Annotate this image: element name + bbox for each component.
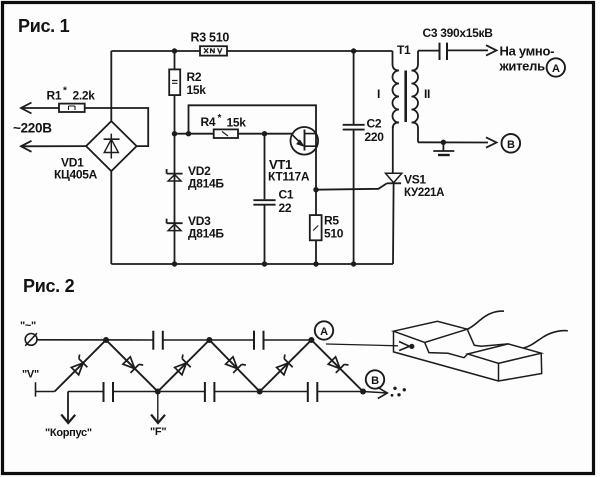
node junction ground <box>441 140 446 145</box>
node terminal A <box>547 58 565 76</box>
wire bridge top to rail <box>110 51 112 121</box>
resistor R5 <box>310 190 344 264</box>
node terminal V <box>22 369 39 397</box>
node junction valley2 <box>257 389 263 395</box>
diode D6 <box>328 354 349 375</box>
svg-text:22: 22 <box>279 201 292 215</box>
right block top face <box>468 344 542 363</box>
thyristor VS1 <box>386 126 445 264</box>
node output arrow fig2 B <box>378 387 388 398</box>
capacitor C3 <box>418 26 493 60</box>
wire R2 bottom to bottom rail through zeners <box>174 95 176 264</box>
svg-text:Рис. 1: Рис. 1 <box>18 16 70 36</box>
core <box>404 71 407 123</box>
node junction <box>351 261 356 266</box>
node junction <box>313 261 318 266</box>
right block right face <box>499 353 542 381</box>
node junction peak2 <box>206 337 212 343</box>
wire lead 1 <box>467 311 504 329</box>
svg-text:15k: 15k <box>187 83 207 97</box>
wire top rail left <box>111 50 200 52</box>
node terminal B <box>502 134 521 153</box>
resistor R3 <box>191 31 230 56</box>
svg-text:C1: C1 <box>279 188 294 202</box>
node pointer arrowhead <box>399 342 414 351</box>
svg-text:А: А <box>552 63 560 75</box>
svg-text:С3 390х15кВ: С3 390х15кВ <box>423 26 494 40</box>
node junction C2 top <box>351 48 356 53</box>
node junction peak1 <box>103 337 109 343</box>
svg-text:R1: R1 <box>47 89 62 103</box>
wire lead 2 <box>524 331 568 348</box>
wire R4 to emitter <box>238 133 293 135</box>
resistor R2 <box>169 51 206 97</box>
wire bottom rail <box>111 263 393 265</box>
left block top face <box>394 321 468 342</box>
wire zigzag diagonals <box>55 340 363 392</box>
node output B arrow <box>486 137 497 147</box>
capacitor C bot2 <box>205 382 215 402</box>
svg-text:R2: R2 <box>187 70 202 84</box>
svg-text:В: В <box>507 139 515 151</box>
svg-text:220: 220 <box>365 130 385 144</box>
capacitor C2 <box>343 51 385 264</box>
svg-text:15k: 15k <box>227 116 247 130</box>
zener diode VD3 <box>167 214 225 241</box>
wire pointer to multiplier block <box>326 344 398 346</box>
wire bridge bottom to bottom rail <box>110 171 112 264</box>
wire <box>85 108 149 146</box>
diode bridge VD1 <box>54 121 137 181</box>
svg-text:В: В <box>371 375 379 387</box>
capacitor C top2 <box>254 331 264 350</box>
svg-text:II: II <box>424 87 430 101</box>
svg-text:*: * <box>218 113 222 124</box>
node terminal A fig2 <box>315 321 333 339</box>
transformer T1 <box>377 43 430 142</box>
svg-text:2.2k: 2.2k <box>73 89 96 103</box>
diode D5 <box>274 354 295 375</box>
zener diode VD2 <box>167 164 225 191</box>
node junction R2 top <box>172 48 177 53</box>
svg-text:"Корпус": "Корпус" <box>45 427 92 439</box>
svg-text:"~": "~" <box>20 320 36 332</box>
node terminal ~ (phi) <box>20 320 37 346</box>
node junction <box>262 261 267 266</box>
secondary winding II <box>412 51 419 143</box>
node junction gate/R5 <box>313 187 318 192</box>
svg-text:VS1: VS1 <box>404 173 426 187</box>
capacitor C bot1 <box>104 382 114 402</box>
wire <box>21 145 86 147</box>
resistor R1 <box>47 86 96 113</box>
wire multiplier bottom rail <box>36 391 364 393</box>
wire gate to thyristor <box>316 183 387 189</box>
node junction loop left <box>186 131 191 136</box>
svg-text:510: 510 <box>324 227 344 241</box>
capacitor C top1 <box>153 331 163 350</box>
svg-text:C2: C2 <box>367 117 382 131</box>
node junction peak3 <box>308 337 314 343</box>
node junction R4 tap <box>172 131 177 136</box>
svg-text:"F": "F" <box>150 426 166 438</box>
transistor VT1 (unijunction) <box>268 127 318 184</box>
decorative dots <box>391 387 406 397</box>
node junction valley3 <box>360 389 366 395</box>
block left and bottom edges <box>394 331 499 381</box>
primary winding I <box>393 51 400 128</box>
wire secondary bottom to B <box>418 141 488 143</box>
svg-text:T1: T1 <box>397 43 411 57</box>
node junction C1 top <box>262 131 267 136</box>
resistor R4 <box>201 113 247 138</box>
diode D2 <box>122 354 143 375</box>
wire multiplier top rail <box>37 339 311 341</box>
node ~220V lower AC arrow <box>21 141 32 152</box>
diode D4 <box>225 354 246 375</box>
svg-text:~220В: ~220В <box>13 121 52 136</box>
svg-text:КЦ405А: КЦ405А <box>54 168 98 182</box>
svg-text:КУ221А: КУ221А <box>404 187 444 199</box>
wire top rail right <box>227 50 393 52</box>
svg-text:"V": "V" <box>22 369 39 381</box>
svg-text:Рис. 2: Рис. 2 <box>23 276 75 296</box>
svg-text:А: А <box>320 326 328 338</box>
capacitor C bot3 <box>308 382 318 402</box>
svg-text:житель: житель <box>499 59 546 74</box>
svg-text:Д814Б: Д814Б <box>188 227 224 241</box>
node output A arrow <box>486 45 497 55</box>
wire to B arrow <box>363 392 387 394</box>
wire R4 feed <box>175 133 214 135</box>
ground <box>433 142 454 155</box>
svg-text:*: * <box>63 86 67 97</box>
svg-text:R3 510: R3 510 <box>191 31 230 45</box>
node ~220V upper AC arrow <box>21 103 32 114</box>
wire loop (R4/VT1 top) <box>189 105 317 189</box>
svg-text:R5: R5 <box>324 214 339 228</box>
node terminal B fig2 <box>366 370 384 388</box>
notch front <box>425 343 468 358</box>
svg-text:Д814Б: Д814Б <box>188 177 224 191</box>
node Корпус arrow <box>45 392 92 440</box>
wire <box>21 107 59 109</box>
svg-text:I: I <box>377 87 380 101</box>
node F arrow <box>150 392 166 439</box>
diode D1 <box>69 354 90 375</box>
capacitor C1 <box>253 134 293 264</box>
node junction valley1 <box>155 389 161 395</box>
svg-text:КТ117А: КТ117А <box>268 170 310 184</box>
notch back <box>467 329 508 346</box>
diode D3 <box>172 354 193 375</box>
svg-text:R4: R4 <box>201 115 216 129</box>
multiplier block drawing <box>394 311 568 381</box>
svg-text:На умно-: На умно- <box>500 44 555 59</box>
node junction <box>172 261 177 266</box>
